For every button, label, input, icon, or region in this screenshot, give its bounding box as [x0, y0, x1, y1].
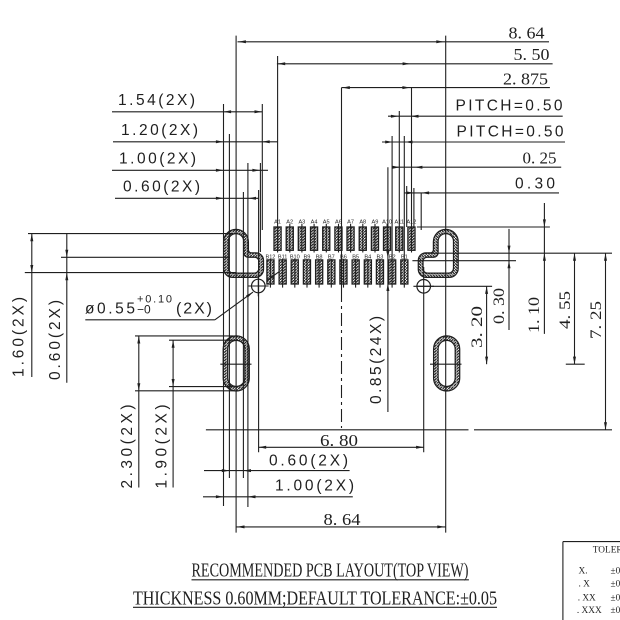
title line 2: [133, 587, 497, 609]
shield pad right (slot): [418, 229, 458, 277]
extension line A12: [411, 88, 413, 253]
centerline mount pad left: [220, 363, 251, 365]
svg-text:A2: A2: [286, 220, 293, 226]
centerline x=236.1 long: [235, 36, 237, 533]
svg-text:B12: B12: [265, 254, 275, 260]
dimension 1.90(2X): [153, 340, 174, 488]
pad B5: [352, 254, 359, 284]
extension line A11: [398, 111, 400, 253]
mount pad right (oblong): [434, 336, 460, 391]
svg-text:±0.30: ±0.30: [611, 567, 620, 577]
extension line y=253.2: [424, 252, 612, 254]
svg-text:A4: A4: [311, 220, 318, 226]
svg-text:A9: A9: [371, 220, 378, 226]
leader arrow at pad B12: [267, 272, 279, 281]
svg-text:±0.20: ±0.20: [611, 580, 620, 590]
leader 0.85 line: [386, 167, 389, 412]
extension line x=413.9: [413, 188, 415, 227]
svg-text:B4: B4: [364, 254, 371, 260]
svg-text:8. 64: 8. 64: [324, 510, 362, 529]
svg-text:2. 875: 2. 875: [503, 69, 548, 88]
pad A4: [311, 220, 318, 251]
dimension 0.30 top: [404, 176, 559, 195]
dimension 2.30(2X): [119, 336, 140, 489]
pad A12: [406, 220, 416, 251]
svg-text:PITCH=0.50: PITCH=0.50: [456, 97, 563, 114]
svg-text:A7: A7: [347, 220, 354, 226]
svg-text:B10: B10: [290, 254, 300, 260]
svg-text:5. 50: 5. 50: [514, 45, 550, 64]
extension line x=223.5: [223, 104, 225, 506]
svg-text:4. 55: 4. 55: [557, 291, 574, 329]
svg-text:RECOMMENDED PCB LAYOUT(TOP VIE: RECOMMENDED PCB LAYOUT(TOP VIEW): [192, 559, 469, 581]
dimension 2.875 top: [342, 69, 550, 89]
dimension 0.25: [392, 148, 561, 168]
svg-text:. XX: . XX: [578, 594, 596, 604]
dimension PITCH=0.50 A: [388, 97, 563, 117]
svg-text:A11: A11: [394, 220, 404, 226]
pad B1: [401, 254, 408, 284]
svg-text:0.85(24X): 0.85(24X): [368, 316, 385, 404]
svg-text:0. 30: 0. 30: [491, 288, 508, 324]
pad B4: [364, 254, 371, 284]
pad A11: [394, 220, 404, 251]
dimension 1.54(2X): [112, 92, 262, 113]
pad B7: [328, 254, 335, 284]
extension line x=229.4: [228, 134, 230, 478]
dimension 1.10: [526, 203, 546, 334]
pad A5: [323, 220, 330, 251]
svg-text:±0.10: ±0.10: [611, 594, 620, 604]
svg-text:A10: A10: [382, 220, 392, 226]
dimension 0.60(2X) bottom: [204, 452, 350, 472]
dimension 4.55: [557, 253, 576, 364]
extension line x=421.2: [420, 193, 422, 230]
extension line y=335.9: [135, 335, 234, 337]
extension line x=260.4: [259, 163, 261, 252]
svg-text:B8: B8: [316, 254, 323, 260]
svg-text:0. 25: 0. 25: [523, 148, 557, 167]
dimension 8.64 top: [238, 24, 550, 44]
dimension 7.25: [588, 253, 607, 430]
svg-text:−0: −0: [137, 302, 151, 316]
svg-text:A3: A3: [298, 220, 305, 226]
svg-text:PITCH=0.50: PITCH=0.50: [457, 124, 564, 141]
pin centerlines B12-B3: [270, 259, 380, 288]
via hole right (0.55): [413, 267, 434, 452]
pad B2: [389, 254, 396, 284]
label 0.85(24X): [368, 316, 385, 404]
extension line y=286.3 via2: [417, 285, 493, 287]
centerline x=341.5 axis: [341, 88, 343, 428]
extension line x=406.7: [406, 186, 408, 227]
pad A3: [298, 220, 305, 251]
dimension 0.30 right: [491, 229, 511, 330]
pad B10: [290, 254, 300, 284]
pad A9: [371, 220, 378, 251]
extension line A1 x=277.6: [277, 56, 279, 253]
extension line B2: [391, 136, 393, 288]
svg-text:A5: A5: [323, 220, 330, 226]
pad A7: [347, 220, 354, 251]
svg-text:B3: B3: [377, 254, 384, 260]
extension line x=243.4: [242, 192, 244, 478]
extension line y=386.6: [169, 386, 234, 388]
dimension 1.00(2X) top: [112, 151, 268, 172]
pad B8: [316, 254, 323, 284]
svg-text:8. 64: 8. 64: [509, 24, 546, 43]
svg-text:B7: B7: [328, 254, 335, 260]
svg-text:3. 20: 3. 20: [469, 306, 486, 348]
svg-text:X.: X.: [579, 567, 588, 577]
dimension 1.00(2X) bottom: [203, 477, 354, 498]
pad B11: [278, 254, 288, 284]
svg-text:0.30: 0.30: [515, 176, 555, 193]
mount pad left (oblong): [223, 336, 249, 391]
tolerance table: [563, 542, 620, 620]
pad A6: [335, 220, 342, 251]
pad A2: [286, 220, 293, 251]
board edge line y=429.8: [206, 429, 612, 431]
centerline x=445.7 long: [445, 36, 447, 533]
svg-text:THICKNESS 0.60MM;DEFAULT TOLER: THICKNESS 0.60MM;DEFAULT TOLERANCE:±0.05: [133, 587, 497, 609]
svg-text:B9: B9: [304, 254, 311, 260]
dimension 0.60(2X) left: [47, 234, 68, 383]
svg-text:. X: . X: [579, 580, 591, 590]
label dia 0.55 +0.10/-0 (2X) with leader: [85, 292, 253, 320]
svg-text:7. 25: 7. 25: [588, 301, 605, 339]
svg-text:ø0.55: ø0.55: [85, 301, 135, 318]
extension line x=262.3: [261, 104, 263, 230]
extension line B1: [403, 136, 405, 288]
extension line y=390.8: [135, 390, 234, 392]
pin centerlines A2-A10: [290, 224, 387, 253]
svg-text:A8: A8: [359, 220, 366, 226]
dimension 8.64 bottom: [236, 510, 446, 529]
dimension 0.60(2X) top: [115, 179, 259, 200]
title line 1: [192, 559, 469, 581]
pad A8: [359, 220, 366, 251]
pad B12: [265, 254, 275, 284]
pad B3: [376, 254, 383, 284]
extension line y=272.6: [25, 272, 236, 274]
svg-text:±0.05: ±0.05: [611, 606, 620, 616]
pad B6: [340, 254, 347, 284]
shield pad left (slot): [224, 229, 264, 277]
dimension 5.50 top: [277, 45, 553, 65]
svg-text:B5: B5: [352, 254, 359, 260]
svg-text:B1: B1: [401, 254, 408, 260]
svg-text:A6: A6: [335, 220, 342, 226]
svg-text:. XXX: . XXX: [577, 606, 602, 616]
pad A10: [382, 220, 392, 251]
dimension PITCH=0.50 B: [382, 124, 565, 144]
extension line y=364.2 right: [566, 363, 585, 365]
extension line x=247.9: [247, 163, 249, 507]
extension line y=257.3: [61, 256, 230, 258]
via hole left (0.55): [248, 276, 269, 297]
extension line y=260.7: [412, 260, 516, 262]
extension line y=340.2: [169, 339, 234, 341]
svg-text:B2: B2: [389, 254, 396, 260]
extension line y=227.0: [417, 226, 550, 228]
svg-text:B6: B6: [340, 254, 347, 260]
dimension 1.20(2X): [113, 122, 278, 143]
svg-text:A12: A12: [406, 220, 416, 226]
dimension 3.20: [469, 286, 488, 364]
dimension 1.60(2X): [10, 234, 33, 377]
svg-text:6. 80: 6. 80: [320, 431, 358, 450]
extension line y=233.6: [28, 233, 233, 235]
centerline mount pad right: [430, 363, 462, 365]
pad A1: [274, 220, 281, 251]
dimension 6.80: [259, 431, 424, 450]
svg-text:1. 10: 1. 10: [526, 297, 543, 333]
extension line x=258.6 via1: [258, 190, 260, 452]
pad B9: [303, 254, 310, 284]
svg-text:TOLERANCE: TOLERANCE: [593, 546, 620, 556]
svg-text:B11: B11: [278, 254, 288, 260]
svg-text:A1: A1: [274, 220, 281, 226]
